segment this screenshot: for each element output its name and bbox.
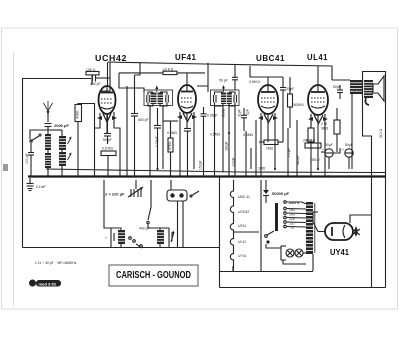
svg-text:+: + (105, 236, 107, 240)
svg-text:480pF: 480pF (296, 155, 300, 165)
IF1 wires (148, 92, 153, 95)
publisher logo (29, 280, 61, 287)
heater line (46, 169, 385, 173)
antenna coil 1 (45, 134, 51, 150)
capacitor 100pF top (232, 65, 238, 90)
heater arrows UY41 (352, 226, 360, 237)
svg-text:67KΩ: 67KΩ (168, 141, 172, 150)
band switch (30, 134, 41, 142)
wire pot down (182, 201, 184, 247)
wire transformer top (313, 211, 318, 213)
svg-text:2000 pF: 2000 pF (54, 123, 69, 128)
capacitor 0,05uF det (199, 107, 218, 176)
wire (91, 76, 93, 86)
electrolytic 50uF b (342, 143, 353, 157)
svg-text:+: + (342, 148, 344, 152)
wires UCH42 triode (95, 113, 101, 128)
capacitor 0,05uF UF41 (184, 129, 191, 177)
wire (250, 66, 283, 77)
svg-text:10K Ω: 10K Ω (86, 68, 96, 72)
svg-text:UY41: UY41 (238, 254, 247, 258)
tube UCH42 (99, 62, 116, 114)
svg-text:150pF: 150pF (199, 160, 203, 170)
resistor 10K (UF41 screen) (163, 71, 177, 74)
junction dot (228, 132, 230, 134)
capacitor 50pF UL41 (333, 85, 343, 99)
wire pot down 2 (177, 201, 179, 247)
svg-text:UF41: UF41 (175, 52, 197, 62)
wire IF1 sec down (149, 106, 151, 176)
wire 283 down (282, 98, 284, 142)
margin mark (3, 164, 8, 171)
capacitor 100pF (25, 143, 34, 176)
capacitor 50pF osc (103, 114, 112, 144)
capacitor 2000pF (45, 123, 70, 134)
svg-text:mod 3-52: mod 3-52 (39, 281, 57, 286)
wire right inner (363, 136, 372, 213)
tube UY41 (313, 212, 353, 240)
svg-text:310 Ω: 310 Ω (379, 128, 383, 138)
resistor 240 ohm (303, 115, 314, 176)
filament bottom wire (232, 266, 234, 271)
heater arrows UBC41 (258, 114, 278, 123)
IF2 cap right (234, 95, 237, 103)
tap labels (289, 200, 300, 230)
svg-text:1MΩ: 1MΩ (266, 147, 274, 151)
svg-text:500KΩ: 500KΩ (294, 103, 305, 107)
osc coil left (118, 230, 125, 244)
resistor 10K osc (86, 72, 99, 75)
svg-text:350 V: 350 V (311, 158, 321, 162)
svg-text:100pF: 100pF (232, 157, 236, 167)
heater arrows UF41 (177, 113, 197, 122)
pilot lamp a (286, 249, 294, 257)
schematic frame bottom (220, 287, 386, 289)
svg-text:2 × 220 pF: 2 × 220 pF (105, 192, 125, 197)
wire UY41 cathode (350, 215, 371, 223)
wire IF2 down (214, 106, 216, 176)
resistor 0,5M osc (101, 147, 116, 177)
osc coil right (157, 230, 164, 244)
wire (245, 131, 247, 176)
capacitor 31pF (241, 108, 247, 131)
osc cap right (169, 231, 174, 242)
IF2 cap left (214, 95, 217, 103)
pot switch (190, 191, 199, 197)
antenna (44, 101, 53, 122)
antenna coil 2 (45, 153, 51, 168)
svg-text:UBC41: UBC41 (256, 53, 285, 63)
svg-text:UCH42: UCH42 (95, 53, 127, 63)
svg-text:2µF: 2µF (246, 109, 250, 115)
svg-text:0,05µF: 0,05µF (207, 114, 218, 118)
svg-text:1MΩ: 1MΩ (258, 167, 266, 171)
capacitor 480pF (296, 120, 300, 176)
svg-text:0,1mF: 0,1mF (36, 185, 46, 189)
svg-text:UL41: UL41 (238, 240, 246, 244)
IF transformer 1 can (144, 90, 173, 106)
svg-text:50 pF: 50 pF (219, 79, 228, 83)
wire plate UCH42 to IF1 (119, 73, 144, 92)
wire (126, 86, 128, 176)
wires UF41 below (179, 112, 181, 176)
svg-text:800 pF: 800 pF (138, 118, 149, 122)
capacitor 0,05uF (154, 108, 161, 169)
junction dots on ground bus (47, 168, 350, 178)
trimmer arrows (68, 137, 72, 161)
tuned coil 2 (59, 152, 66, 166)
svg-text:240 Ω: 240 Ω (303, 139, 313, 143)
svg-text:± 11 ÷ 30 pF MF=466KHz: ± 11 ÷ 30 pF MF=466KHz (35, 261, 77, 265)
pilot lamp b (295, 249, 303, 257)
capacitor 800pF (131, 104, 149, 176)
osc cap left (105, 233, 114, 241)
svg-text:0,1µF: 0,1µF (287, 148, 291, 157)
tuned coil 1 (59, 136, 66, 150)
IF1 cap left (147, 95, 150, 103)
wire staircase (135, 62, 141, 75)
svg-text:UF41: UF41 (238, 224, 246, 228)
svg-text:10 K Ω: 10 K Ω (163, 68, 174, 72)
wire (162, 106, 164, 169)
capacitor 400pF (90, 75, 110, 87)
IF1 coil a (151, 93, 157, 105)
capacitor 51pF (280, 77, 294, 98)
svg-text:40KΩ: 40KΩ (76, 110, 80, 119)
svg-text:80KΩ: 80KΩ (221, 108, 225, 117)
svg-text:2 W: 2 W (321, 122, 328, 126)
wire UL41 down (310, 114, 312, 128)
wire (371, 213, 373, 288)
filament dropper chain (230, 180, 233, 271)
wires electrolytics (321, 151, 325, 153)
resistor 40K (75, 104, 95, 177)
label box CARISCH-GOUNOD (109, 265, 198, 286)
wire (255, 120, 257, 176)
volume pot (167, 180, 187, 201)
heater arrows UCH42 (97, 114, 117, 123)
output transformer (332, 80, 362, 94)
wire speaker to bus (351, 94, 353, 169)
resistor 1M (259, 140, 283, 151)
ground cap 0,1mF (27, 178, 46, 191)
svg-text:CARISCH - GOUNOD: CARISCH - GOUNOD (116, 270, 191, 281)
svg-text:UY41: UY41 (330, 247, 349, 257)
svg-text:+: + (322, 148, 324, 152)
IF1 cap right (166, 95, 169, 103)
capacitor 0,1uF (287, 128, 291, 176)
svg-text:0,05µF: 0,05µF (155, 136, 159, 147)
schematic frame bottom-left (23, 247, 220, 249)
wire coil junction (47, 150, 49, 153)
wire (207, 63, 209, 86)
wire antenna down (47, 168, 49, 176)
heater arrows UL41 (308, 115, 328, 124)
wire coil2 down (61, 166, 63, 176)
svg-text:180pF: 180pF (225, 141, 229, 151)
mains switch (265, 231, 274, 244)
tube UL41 (308, 66, 328, 115)
oscillator wire (148, 180, 151, 220)
schematic frame step (219, 177, 221, 288)
wire UBC41 down (260, 113, 262, 176)
tube UBC41 (258, 77, 278, 114)
svg-text:0,5M Ω: 0,5M Ω (249, 80, 260, 84)
svg-text:0,5MΩ: 0,5MΩ (243, 133, 254, 137)
wire (250, 148, 252, 169)
svg-text:50pF: 50pF (333, 85, 341, 89)
filament junction wire (233, 231, 259, 233)
svg-text:100 pF: 100 pF (25, 153, 29, 164)
supply wires (260, 180, 262, 232)
tuning gang 2x220pF (105, 180, 143, 197)
IF2 coil b (227, 93, 232, 105)
IF2 wires (215, 92, 224, 95)
wire anode y71 (119, 72, 163, 74)
wire AVC y78 (22, 78, 91, 80)
IF2 tuning arrow (222, 85, 225, 92)
svg-text:UL41: UL41 (307, 52, 328, 62)
resistor 500K (288, 77, 305, 128)
capacitor 50000pF (263, 180, 290, 203)
wire top y66 (205, 64, 332, 80)
svg-text:0,5MΩ: 0,5MΩ (167, 131, 178, 135)
schematic frame right (385, 71, 387, 288)
svg-text:50 pF: 50 pF (103, 138, 112, 142)
resistor 2W 98ohm (321, 108, 340, 152)
transformer core line (314, 203, 316, 253)
speaker (363, 72, 386, 137)
IF1 tuning arrow (155, 86, 158, 93)
capacitor 100pF det (232, 106, 236, 176)
IF transformer 2 can (211, 90, 240, 106)
schematic frame left (22, 78, 24, 248)
osc switch contacts (129, 237, 132, 240)
scan crease (13, 52, 15, 306)
wire top y62 (108, 62, 205, 64)
tap wires (287, 202, 306, 227)
resistor 800 ohm (305, 139, 321, 149)
wire plate UF41 to IF2 (197, 86, 208, 92)
power transformer winding (306, 202, 313, 254)
resistor 310 ohm right (379, 128, 383, 138)
svg-text:0,5MΩ: 0,5MΩ (210, 133, 221, 137)
voltage selector plate (275, 203, 278, 231)
IF2 coil a (221, 93, 226, 105)
electrolytic 50uF a (322, 143, 333, 157)
svg-text:UBC 41: UBC 41 (238, 195, 250, 199)
ground bus (28, 175, 385, 177)
osc wires (110, 228, 112, 233)
wire (101, 62, 110, 91)
svg-text:50µF: 50µF (325, 143, 333, 147)
tube UF41 (178, 73, 196, 113)
svg-text:UCH42: UCH42 (238, 210, 249, 214)
resistor 67K (163, 121, 178, 176)
capacitor 180pF (225, 106, 229, 176)
svg-text:50000 pF: 50000 pF (272, 191, 290, 196)
svg-text:0,5 MΩ: 0,5 MΩ (102, 147, 113, 151)
taps (284, 201, 287, 228)
IF1 coil b (158, 93, 164, 105)
